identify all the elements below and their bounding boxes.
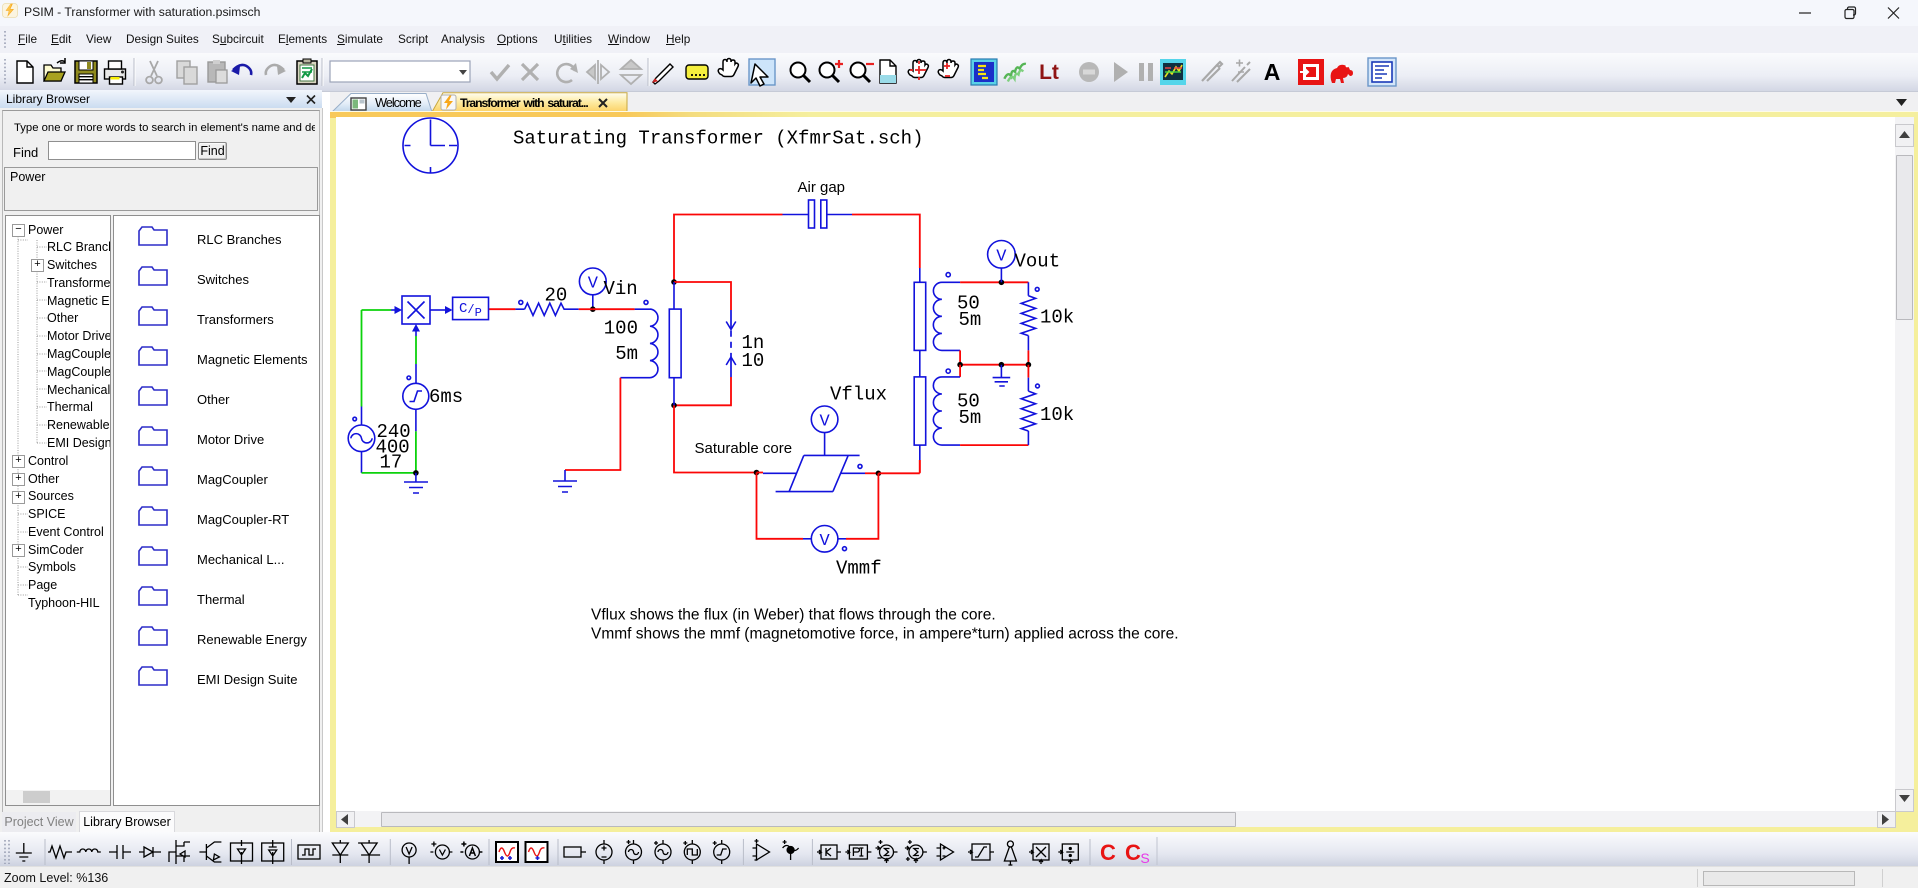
svg-text:10: 10 bbox=[742, 350, 765, 372]
svg-text:Saturable core: Saturable core bbox=[695, 440, 793, 457]
node sat left bbox=[754, 470, 760, 476]
undo bbox=[231, 65, 251, 75]
svg-text:V: V bbox=[996, 247, 1007, 266]
svg-text:Vflux shows the flux (in Weber: Vflux shows the flux (in Weber) that flo… bbox=[591, 606, 996, 623]
multiplier input arrow bbox=[391, 306, 402, 314]
sensor probe icon bbox=[783, 840, 799, 860]
wire top left red bbox=[674, 215, 783, 283]
dc source icon bbox=[596, 840, 612, 864]
svg-text:A: A bbox=[1264, 59, 1281, 85]
label bbox=[686, 65, 708, 79]
primary winding L1 bbox=[620, 300, 658, 377]
svg-text:6ms: 6ms bbox=[429, 386, 463, 408]
secondary L2 values 50 5m bbox=[957, 292, 981, 331]
zoom bbox=[791, 63, 811, 83]
multiplier output arrow to C/P bbox=[430, 306, 453, 314]
print bbox=[105, 61, 126, 84]
inductor icon bbox=[77, 849, 101, 852]
thyristor bridge icon bbox=[262, 840, 284, 864]
primary core leg bbox=[669, 282, 681, 405]
sine source labels 240 400 17 bbox=[376, 421, 411, 473]
wire vmmf loop red bbox=[757, 473, 879, 539]
voltmeter Vflux bbox=[811, 406, 838, 455]
A bbox=[1264, 59, 1281, 85]
svg-text:17: 17 bbox=[380, 451, 403, 473]
secondary core bottom leg bbox=[914, 377, 926, 473]
secondary winding L2 top bbox=[933, 273, 960, 351]
check disabled bbox=[491, 65, 509, 79]
wire L3 bottom red bbox=[960, 444, 1028, 446]
cut (disabled) bbox=[146, 61, 162, 83]
svg-text:Welcome: Welcome bbox=[375, 95, 422, 110]
ground icon bbox=[16, 843, 32, 861]
summer 1 icon bbox=[876, 840, 898, 863]
save bbox=[75, 61, 97, 83]
x disabled bbox=[522, 64, 538, 80]
multiplier bottom arrow bbox=[412, 324, 420, 336]
bottom dock tabs bbox=[2, 812, 76, 834]
comparator icon bbox=[937, 844, 954, 860]
node A bbox=[671, 279, 677, 285]
multiplier icon bbox=[1029, 844, 1049, 864]
svg-text:100: 100 bbox=[604, 318, 638, 340]
sine source VS1 bbox=[348, 417, 375, 451]
svg-text:C/P: C/P bbox=[459, 301, 482, 320]
wire left down red bbox=[674, 405, 757, 472]
divider icon bbox=[1058, 844, 1078, 864]
wire source top bbox=[361, 310, 363, 425]
description text bbox=[591, 606, 1179, 642]
mosfet icon bbox=[169, 840, 190, 864]
flip h disabled bbox=[587, 60, 609, 84]
stop disabled bbox=[1079, 62, 1099, 82]
svg-text:C: C bbox=[1125, 840, 1141, 865]
svg-text:Vmmf: Vmmf bbox=[836, 558, 882, 580]
voltmeter icon bbox=[402, 843, 416, 864]
zoom in bbox=[820, 60, 844, 82]
svg-text:Vout: Vout bbox=[1015, 251, 1061, 273]
wire 6ms to multiplier bbox=[415, 336, 417, 383]
node Vin bbox=[590, 306, 596, 312]
resistor R3 10k bottom bbox=[1021, 365, 1039, 445]
zener icon bbox=[332, 840, 348, 863]
limiter icon bbox=[968, 844, 994, 860]
paste (disabled) bbox=[208, 60, 227, 83]
svg-text:C: C bbox=[1100, 840, 1116, 865]
ammeter icon bbox=[460, 842, 482, 860]
sine source 2 icon bbox=[654, 840, 671, 864]
svg-text:20: 20 bbox=[545, 285, 568, 307]
curve screen (active) bbox=[1368, 58, 1396, 86]
elephant red bbox=[1331, 65, 1353, 83]
simview bbox=[1160, 59, 1186, 85]
ground source bbox=[404, 473, 428, 493]
voltmeter Vin bbox=[579, 268, 606, 309]
air gap capacitor bbox=[783, 200, 853, 228]
svg-text:5m: 5m bbox=[615, 343, 638, 365]
svg-text:Vin: Vin bbox=[604, 278, 638, 300]
pm pencil disabled bbox=[1232, 60, 1250, 83]
svg-text:Saturating Transformer (XfmrSa: Saturating Transformer (XfmrSat.sch) bbox=[513, 128, 923, 150]
diode bridge icon bbox=[231, 840, 253, 864]
resistor box icon bbox=[564, 847, 586, 857]
runtime graph clipboard bbox=[297, 59, 317, 84]
ground primary bbox=[553, 470, 577, 492]
PI block icon bbox=[845, 845, 871, 859]
combobox bbox=[330, 61, 470, 82]
node sat right bbox=[876, 471, 882, 477]
wave green bbox=[1004, 60, 1026, 84]
redo (disabled) bbox=[266, 65, 286, 75]
svg-text:Transformer with saturat...: Transformer with saturat... bbox=[460, 96, 588, 110]
Lt bbox=[1039, 61, 1059, 84]
multiplier block bbox=[402, 296, 430, 324]
wire sat right to secondary red bbox=[878, 460, 919, 473]
svg-text:10k: 10k bbox=[1040, 404, 1074, 426]
opamp icon bbox=[753, 839, 770, 860]
gain block icon bbox=[817, 845, 841, 859]
wire source to multiplier green bbox=[362, 309, 392, 311]
secondary L3 values 50 5m bbox=[957, 390, 981, 429]
node Vout bbox=[999, 280, 1005, 286]
capacitor icon bbox=[109, 845, 131, 859]
wire flux branch bbox=[674, 282, 731, 405]
svg-text:Vflux: Vflux bbox=[830, 384, 887, 406]
voltmeter Vmmf bbox=[803, 526, 847, 553]
wire pencil bbox=[653, 64, 673, 84]
element list (active cyan) bbox=[971, 59, 997, 85]
svg-text:V: V bbox=[819, 532, 830, 551]
wire Vin to winding bbox=[593, 308, 635, 310]
resistor R1 20 bbox=[489, 300, 593, 315]
node ground junction bbox=[413, 470, 419, 476]
folder list panel bbox=[113, 215, 320, 806]
zoom in/out hand bbox=[938, 60, 958, 78]
rotate disabled bbox=[557, 63, 578, 82]
horizontal scrollbar bbox=[336, 811, 1895, 827]
flip v disabled bbox=[621, 60, 641, 84]
igbt icon bbox=[199, 842, 221, 862]
block C/P bbox=[453, 297, 489, 320]
wire primary return red bbox=[565, 378, 620, 470]
hand bbox=[718, 59, 738, 77]
open bbox=[44, 58, 65, 81]
sine source icon bbox=[626, 840, 642, 864]
flux arrow bbox=[726, 310, 736, 377]
wire L2 bottom bbox=[960, 350, 1028, 364]
voltmeter Vout bbox=[988, 241, 1016, 283]
svg-text:S: S bbox=[1140, 850, 1149, 866]
diac icon bbox=[358, 840, 380, 863]
resistor icon bbox=[48, 846, 72, 858]
secondary winding L3 bottom bbox=[933, 365, 960, 445]
wire top right red bbox=[852, 215, 920, 269]
wire 6ms down bbox=[415, 409, 417, 473]
zoom area hand bbox=[908, 60, 928, 81]
wire L2 top red bbox=[960, 281, 1028, 283]
tree panel bbox=[5, 215, 111, 806]
svg-text:Lt: Lt bbox=[1039, 61, 1059, 84]
secondary core top leg bbox=[914, 268, 926, 377]
node B bbox=[671, 403, 677, 409]
step source icon bbox=[713, 840, 730, 864]
svg-text:5m: 5m bbox=[959, 309, 982, 331]
vertical scrollbar bbox=[1895, 117, 1914, 811]
svg-text:V: V bbox=[819, 412, 830, 431]
copy (disabled) bbox=[177, 61, 197, 84]
primary values 100 5m bbox=[604, 318, 638, 366]
scope 2 icon bbox=[526, 842, 548, 862]
play disabled bbox=[1114, 62, 1128, 82]
svg-text:5m: 5m bbox=[959, 407, 982, 429]
wire source bottom green bbox=[362, 452, 416, 473]
fit page bbox=[880, 60, 896, 83]
square source icon bbox=[683, 840, 700, 864]
ground mid bbox=[993, 365, 1011, 386]
svg-text:V: V bbox=[588, 275, 599, 294]
pause disabled bbox=[1139, 63, 1153, 81]
resistor R2 10k top bbox=[1021, 282, 1039, 364]
subcircuit red bbox=[1298, 59, 1324, 85]
clock symbol bbox=[403, 118, 458, 173]
nodes mid rail bbox=[957, 362, 1031, 368]
new bbox=[17, 61, 33, 83]
scope 1 icon bbox=[496, 842, 518, 862]
svg-text:Air gap: Air gap bbox=[798, 179, 846, 196]
gating block icon bbox=[298, 845, 320, 859]
step source T1 6ms bbox=[403, 376, 429, 409]
saturable core element bbox=[757, 455, 879, 491]
probe person icon bbox=[1004, 841, 1016, 865]
voltage sensor icon bbox=[430, 842, 452, 860]
select arrow (active) bbox=[749, 59, 775, 86]
diode icon bbox=[139, 847, 161, 857]
summer 2 icon bbox=[905, 840, 927, 863]
measure tools disabled bbox=[1202, 62, 1222, 81]
svg-text:10k: 10k bbox=[1040, 307, 1074, 329]
zoom out bbox=[851, 63, 875, 83]
svg-text:Vmmf shows the mmf (magnetomot: Vmmf shows the mmf (magnetomotive force,… bbox=[591, 626, 1179, 643]
